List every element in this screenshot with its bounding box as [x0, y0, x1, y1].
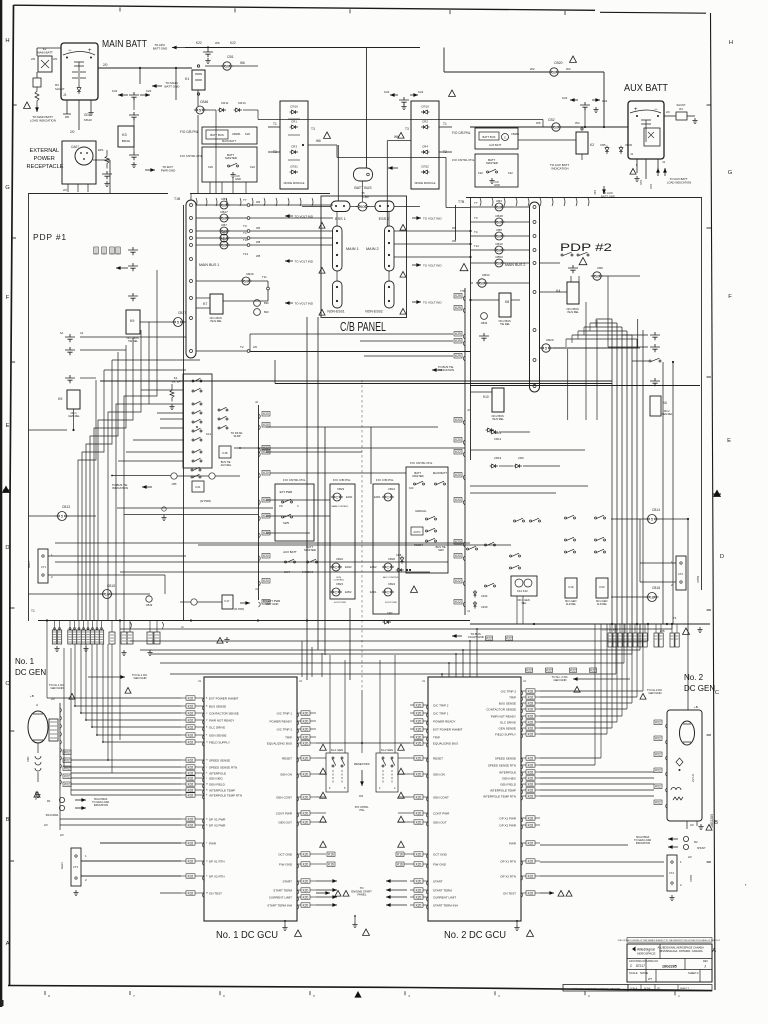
svg-text:F/O C/B PNL: F/O C/B PNL [452, 131, 471, 135]
svg-text:MAIN 2: MAIN 2 [366, 247, 379, 251]
svg-text:W4: W4 [566, 67, 571, 71]
svg-text:K20: K20 [263, 412, 269, 416]
svg-text:B20: B20 [264, 310, 269, 314]
terminal box left single [154, 632, 160, 644]
terminal box left single [121, 632, 127, 644]
wire v325 [324, 427, 326, 655]
crossover wire 2 [140, 649, 640, 651]
wire gcu2 fan 9 [540, 764, 595, 766]
svg-text:T4: T4 [243, 231, 247, 235]
svg-text:E332: E332 [345, 565, 352, 569]
border tick bottom [44, 991, 46, 995]
border tick bottom [674, 991, 676, 995]
wirebox gcu2 left 3 [414, 727, 423, 732]
svg-text:J2: J2 [255, 400, 258, 404]
svg-text:K22: K22 [570, 669, 576, 673]
wire T2 into module [268, 151, 280, 153]
svg-text:CB281: CB281 [232, 132, 241, 136]
svg-text:K6: K6 [663, 401, 667, 405]
svg-text:ALLIEDSIGNAL AEROSPACE CANADA: ALLIEDSIGNAL AEROSPACE CANADA MISSISSAUG… [657, 946, 704, 953]
wire T2 bus right [470, 385, 700, 387]
svg-text:50: 50 [497, 220, 502, 225]
terminal box right single [675, 633, 679, 647]
wire label left bundle [102, 247, 106, 254]
svg-text:EXT POWER INHIBIT: EXT POWER INHIBIT [433, 728, 463, 732]
svg-text:ON TEST: ON TEST [503, 892, 516, 896]
svg-text:K19: K19 [569, 585, 574, 589]
svg-text:K2: K2 [590, 143, 594, 147]
composite generated drawing bar [563, 985, 628, 992]
terminal box right grp [623, 633, 627, 647]
GCU2 ground [516, 921, 518, 925]
wirebox gcu1 right 11 [301, 862, 310, 867]
wire center drop [361, 690, 363, 753]
svg-text:EP1: EP1 [98, 148, 104, 152]
wire CR11 down [215, 110, 217, 194]
MAIN 2 strip [385, 226, 395, 271]
PDP #1 enclosure box [29, 194, 184, 622]
svg-text:MAIN BATT: MAIN BATT [222, 139, 236, 143]
wire into gcu1 14 [60, 818, 181, 820]
svg-text:START: START [433, 880, 443, 884]
svg-text:No. 2 DC GCU: No. 2 DC GCU [444, 929, 506, 941]
wire label K22 [486, 636, 493, 641]
svg-text:NO.1 BUS ISLN REL: NO.1 BUS ISLN REL [210, 316, 223, 323]
no.2 gen switch box (dashed) [376, 753, 398, 792]
wirebox gcu1 right 12 [301, 879, 310, 884]
wire bundle left v0 [78, 380, 96, 621]
diode CR12b [490, 430, 498, 434]
arrow to load indication [36, 105, 38, 112]
zone tick left [10, 730, 15, 732]
wire gcu2 left in [398, 821, 410, 823]
svg-text:SHEET: SHEET [688, 971, 697, 975]
svg-text:CONT PWR: CONT PWR [276, 812, 293, 816]
warning triangle center-right [398, 816, 405, 822]
wire into gcu1 16 [100, 842, 181, 844]
wire contact c [632, 360, 649, 362]
arrow engine start left 1 [316, 889, 337, 891]
svg-text:K02: K02 [528, 823, 534, 827]
svg-text:K22: K22 [546, 669, 552, 673]
svg-text:T4: T4 [474, 230, 478, 234]
wirebox gcu2 left 2 [414, 719, 423, 724]
svg-text:CB20: CB20 [554, 61, 563, 65]
interpole winding block [49, 719, 58, 741]
wirebox gcu2 left 11 [414, 852, 423, 857]
diodes CR16 CR18 [473, 590, 476, 598]
svg-text:O/C TRIP 1: O/C TRIP 1 [277, 712, 293, 716]
svg-text:GEN OUT: GEN OUT [278, 821, 292, 825]
svg-text:DP X1 PWR: DP X1 PWR [209, 818, 226, 822]
svg-text:K22: K22 [649, 184, 653, 189]
svg-text:2/0: 2/0 [253, 345, 257, 349]
svg-text:K22: K22 [602, 99, 608, 103]
svg-text:K18: K18 [223, 451, 228, 455]
svg-text:DIODE MODULE: DIODE MODULE [415, 181, 436, 185]
svg-text:CONTACTOR SENSE: CONTACTOR SENSE [209, 712, 239, 716]
svg-text:E301: E301 [370, 590, 377, 594]
crossover drop left 2 [321, 653, 323, 677]
wire cross to pdp2 [337, 156, 446, 158]
wire gcu2 left in [398, 812, 410, 814]
svg-text:AUX CONTROL: AUX CONTROL [383, 576, 400, 579]
svg-text:K20: K20 [416, 711, 422, 715]
terminal box right single [654, 633, 658, 647]
svg-text:K22: K22 [196, 41, 202, 45]
wire bundle left v1 [82, 370, 104, 621]
svg-text:K02: K02 [188, 711, 194, 715]
svg-text:T3: T3 [405, 127, 409, 131]
terminal box right single [670, 633, 674, 647]
svg-text:K02: K02 [528, 701, 534, 705]
svg-text:AUX BATT: AUX BATT [489, 143, 502, 147]
wire contact b [608, 346, 648, 348]
wire bundle top h1 [590, 322, 617, 324]
wire label K22 [570, 668, 577, 673]
svg-text:J2: J2 [467, 408, 470, 412]
warning triangle right module [398, 132, 404, 138]
svg-text:K20: K20 [208, 165, 213, 169]
svg-text:W6: W6 [256, 200, 261, 204]
wire bundle left v7 [116, 322, 149, 621]
svg-text:TO MAIN BATT LOAD INDICATION: TO MAIN BATT LOAD INDICATION [30, 115, 56, 123]
breaker CB50 [471, 262, 494, 264]
svg-text:K22: K22 [639, 180, 643, 185]
breaker CB9 [196, 237, 218, 239]
svg-text:MS10: MS10 [84, 118, 92, 122]
wirebox gcu1 left 8 [186, 765, 195, 770]
breaker CB7 [196, 230, 218, 232]
relay K7 [210, 294, 223, 314]
wire drop left 3 [91, 644, 93, 727]
relay K5 [67, 390, 80, 409]
svg-text:DP X2 PWR: DP X2 PWR [500, 824, 517, 828]
main battery BT1 [61, 43, 98, 100]
svg-text:K20: K20 [600, 585, 605, 589]
wire bundle top h2 [584, 326, 622, 328]
svg-text:No. 1 DC GCU: No. 1 DC GCU [216, 929, 278, 941]
svg-text:J1: J1 [523, 679, 526, 683]
svg-text:OCT GND: OCT GND [433, 853, 448, 857]
T2 bottom pin main bus 1 [196, 350, 247, 352]
wire main2 to noness2 [388, 271, 390, 281]
svg-text:CB1: CB1 [227, 55, 234, 59]
breaker CB48 [471, 221, 494, 223]
svg-text:F/O GND: F/O GND [235, 174, 241, 181]
gen2 wire label [654, 736, 662, 741]
wire gcu2 left in [398, 757, 410, 759]
svg-text:GEN FIELD: GEN FIELD [209, 783, 226, 787]
wirebox gcu1 left 1 [186, 704, 195, 709]
svg-text:K11: K11 [206, 432, 211, 436]
zone arrow right [713, 490, 721, 497]
wirebox gcu2 right 2 [526, 701, 535, 706]
svg-text:O/C TRIP 2: O/C TRIP 2 [501, 690, 517, 694]
wire bundle top h0 [596, 318, 612, 320]
svg-text:K02: K02 [528, 726, 534, 730]
F/O CNTRL PNL box left [202, 147, 257, 182]
svg-text:J: J [704, 964, 706, 969]
svg-text:+B: +B [30, 694, 34, 698]
svg-text:K02: K02 [188, 859, 194, 863]
diodes CR5 CB30 [605, 146, 609, 154]
breaker CB15 [101, 590, 114, 599]
svg-text:2/0: 2/0 [60, 833, 64, 837]
wirebox gcu1 left 11 [186, 782, 195, 787]
wire into gcu1 18 [81, 875, 181, 877]
svg-text:K02: K02 [188, 704, 194, 708]
wire h500 [266, 499, 330, 501]
svg-text:E: E [727, 438, 731, 444]
svg-text:C: C [297, 505, 299, 508]
wire T3 branch down [336, 145, 338, 157]
wirebox gcu1 right 9 [301, 820, 310, 825]
svg-text:J: J [206, 767, 207, 769]
svg-text:DP X2 RTN: DP X2 RTN [209, 875, 225, 879]
warning triangle center-left [320, 816, 327, 822]
svg-text:K02: K02 [528, 720, 534, 724]
svg-text:F/O CNTRL PNL: F/O CNTRL PNL [283, 478, 306, 482]
svg-text:K02: K02 [528, 763, 534, 767]
svg-text:16: 16 [105, 592, 110, 597]
svg-text:CB47: CB47 [220, 210, 228, 214]
svg-text:T12: T12 [474, 244, 479, 248]
wirebox gcu1 right 8 [301, 811, 310, 816]
arrow engine start left 2 [316, 896, 337, 898]
wire CB2 to aux batt [560, 126, 628, 128]
svg-text:INTERPOLE TEMP RTN: INTERPOLE TEMP RTN [209, 794, 242, 798]
svg-text:K02: K02 [655, 785, 661, 789]
wirebox gcu2 right 7 [526, 732, 535, 737]
crossover wire up 1 [647, 624, 649, 641]
wirebox gcu2 right 15 [526, 816, 535, 821]
receptacle pins below [68, 184, 88, 192]
wire label K22 [506, 636, 513, 641]
wirebox gcu2 right 11 [526, 776, 535, 781]
receptacle connector circle [75, 147, 93, 165]
J1 hooks left row [130, 622, 164, 629]
svg-text:K20: K20 [303, 756, 309, 760]
svg-text:MAIN 1: MAIN 1 [346, 247, 359, 251]
contactor K1 [192, 70, 205, 90]
svg-text:BUS SENSE: BUS SENSE [499, 702, 516, 706]
terminal box left grp2 [95, 630, 99, 644]
svg-text:K20: K20 [416, 741, 422, 745]
top gnd bus wire [185, 47, 420, 49]
breaker CB10 [471, 249, 494, 251]
svg-text:K02: K02 [188, 718, 194, 722]
svg-text:K20: K20 [303, 888, 309, 892]
svg-text:C: C [715, 690, 719, 696]
arrow engine start right 2 [386, 896, 407, 898]
F/O C/B PNL box left [202, 127, 257, 144]
svg-text:W6: W6 [240, 61, 245, 65]
svg-text:POWER READY: POWER READY [269, 720, 292, 724]
zone tick right [707, 734, 712, 736]
svg-text:K22: K22 [455, 579, 461, 583]
contact pdp2 c [649, 358, 661, 362]
svg-text:K20: K20 [455, 498, 461, 502]
svg-text:J1: J1 [467, 609, 470, 613]
svg-text:50: 50 [497, 261, 502, 266]
border arrow bottom [354, 991, 361, 998]
svg-text:SPEED SENSE RTN: SPEED SENSE RTN [209, 766, 237, 770]
wire to pdp2 feeder [446, 207, 471, 209]
T1 ground bus right [470, 623, 710, 625]
wirebox gcu2 left 13 [414, 879, 423, 884]
svg-text:CB46: CB46 [200, 100, 208, 104]
svg-text:K22: K22 [112, 89, 118, 93]
long bus wire y381 [100, 380, 612, 382]
svg-text:K02: K02 [528, 841, 534, 845]
svg-text:TO BUS TIE INDICATION: TO BUS TIE INDICATION [438, 365, 454, 372]
MAIN BUS 1 strip [186, 200, 196, 358]
svg-text:CR1: CR1 [291, 120, 297, 124]
wire batt bus feed from top [366, 48, 368, 169]
svg-text:K02: K02 [528, 874, 534, 878]
svg-text:K29: K29 [455, 332, 461, 336]
svg-text:T7: T7 [474, 201, 478, 205]
svg-text:2/0: 2/0 [31, 57, 36, 61]
diode CR7 [383, 620, 391, 624]
wire bundle top h3 [578, 330, 627, 332]
terminal box left grp2 [99, 630, 103, 644]
breaker CB1 top [221, 62, 233, 70]
relay K18 [219, 446, 231, 458]
svg-text:K02: K02 [188, 696, 194, 700]
svg-text:K20: K20 [303, 879, 309, 883]
wire h448 [234, 447, 465, 449]
diode CR8 [400, 556, 404, 564]
breaker CB8 [471, 235, 494, 237]
svg-text:START TERM: START TERM [273, 889, 292, 893]
drawing border frame [10, 5, 14, 985]
svg-text:RESET/OFF: RESET/OFF [354, 762, 370, 766]
svg-text:K20: K20 [455, 473, 461, 477]
wire center drop [394, 655, 396, 753]
svg-text:K20: K20 [303, 795, 309, 799]
svg-text:50: 50 [497, 205, 502, 210]
wire gcu2 fan vertical 4 [621, 624, 623, 716]
generator G2 assembly box [667, 710, 702, 821]
contact pair b [65, 347, 75, 355]
wirebox gcu2 left 5 [414, 741, 423, 746]
connector stubs J-row under PDP2 top [480, 198, 481, 206]
wire k11 feeder b [149, 403, 183, 405]
svg-text:TO BUS TIE INDICATION: TO BUS TIE INDICATION [112, 483, 128, 490]
svg-text:A2: A2 [80, 331, 84, 335]
svg-text:2/0: 2/0 [53, 57, 58, 61]
svg-text:PWR: PWR [209, 842, 217, 846]
wire center drop [329, 655, 331, 753]
svg-text:W6: W6 [452, 226, 457, 230]
wire bundle left v3 [90, 352, 118, 621]
svg-text:CB6: CB6 [597, 266, 603, 270]
contact pdp2 a [650, 332, 660, 340]
aux batt ground leads [634, 176, 639, 182]
MAIN 1 strip [333, 226, 343, 271]
batt bus cb box [206, 130, 228, 139]
oct gnd wires [316, 853, 326, 855]
svg-text:50: 50 [360, 204, 365, 209]
wire h514 [124, 514, 258, 516]
wire ct3 b [81, 875, 181, 877]
warning triangle 23 [24, 102, 31, 108]
aux battery BT2 [628, 101, 664, 159]
wire bundle right v4 [631, 335, 633, 624]
svg-text:INTERPOLE TEMP: INTERPOLE TEMP [209, 789, 235, 793]
wire v608 [607, 276, 609, 347]
gen2 wire label [654, 720, 662, 725]
svg-text:F/O CNTRL PNL: F/O CNTRL PNL [180, 154, 203, 158]
svg-text:K5: K5 [58, 397, 62, 401]
svg-text:87217: 87217 [636, 964, 645, 968]
svg-text:CB14: CB14 [652, 508, 660, 512]
svg-text:50: 50 [497, 248, 502, 253]
wire into gcu1 0 [47, 697, 181, 699]
svg-text:J1: J1 [198, 679, 201, 683]
NON-ESS1 strip [333, 281, 343, 308]
svg-text:50: 50 [552, 70, 557, 75]
svg-text:C: C [387, 590, 390, 595]
breaker CB14 [646, 515, 659, 524]
crossover wires above GCUs [306, 652, 308, 700]
contact pair a [65, 334, 75, 342]
wire v643 [642, 330, 644, 624]
svg-text:2/0: 2/0 [688, 855, 692, 859]
wirebox gcu1 left 6 [186, 740, 195, 745]
warning triangle center-left [320, 744, 327, 750]
svg-text:CT3: CT3 [73, 865, 78, 869]
K13 cluster relays K14 K12 [510, 553, 521, 557]
wirebox gcu2 right 13 [526, 788, 535, 793]
warning triangle center-right [398, 792, 405, 798]
svg-text:K20: K20 [455, 554, 461, 558]
svg-text:CB2: CB2 [548, 118, 555, 122]
svg-text:50mV/300A TO GEN LOAD INDICATI: 50mV/300A TO GEN LOAD INDICATION [634, 836, 652, 845]
svg-text:W6: W6 [536, 121, 541, 125]
wire drop left x64 [63, 648, 65, 767]
svg-text:E352: E352 [345, 590, 352, 594]
wire h452 [266, 451, 362, 453]
svg-text:CB9: CB9 [221, 230, 227, 234]
svg-text:H: H [729, 40, 733, 46]
wire label left bundle [110, 247, 114, 254]
wire gcu2 fan vertical 1 [636, 624, 638, 697]
svg-text:ESS 2: ESS 2 [379, 217, 390, 221]
wirebox gcu2 right 5 [526, 720, 535, 725]
relay K6 [650, 396, 661, 416]
svg-text:W4: W4 [575, 121, 580, 125]
wire CB20A to corner [553, 347, 638, 349]
wire k11 feeder f [118, 460, 183, 462]
svg-text:E/B: E/B [660, 629, 665, 633]
zone tick left [10, 607, 15, 609]
No. 1 DC GCU box [204, 677, 297, 921]
breaker CB6A right [591, 272, 603, 280]
svg-text:CR2: CR2 [422, 120, 428, 124]
aux batt bottom leads [637, 159, 658, 179]
wirebox gcu1 right 4 [301, 741, 310, 746]
wirebox gcu1 left 3 [186, 718, 195, 723]
svg-text:K20: K20 [245, 132, 250, 136]
svg-text:W8: W8 [256, 254, 261, 258]
svg-text:CB7: CB7 [221, 223, 227, 227]
wirebox gcu1 right 15 [301, 903, 310, 908]
arrow engine start right 0 [386, 880, 407, 882]
svg-text:CR22: CR22 [421, 165, 429, 169]
